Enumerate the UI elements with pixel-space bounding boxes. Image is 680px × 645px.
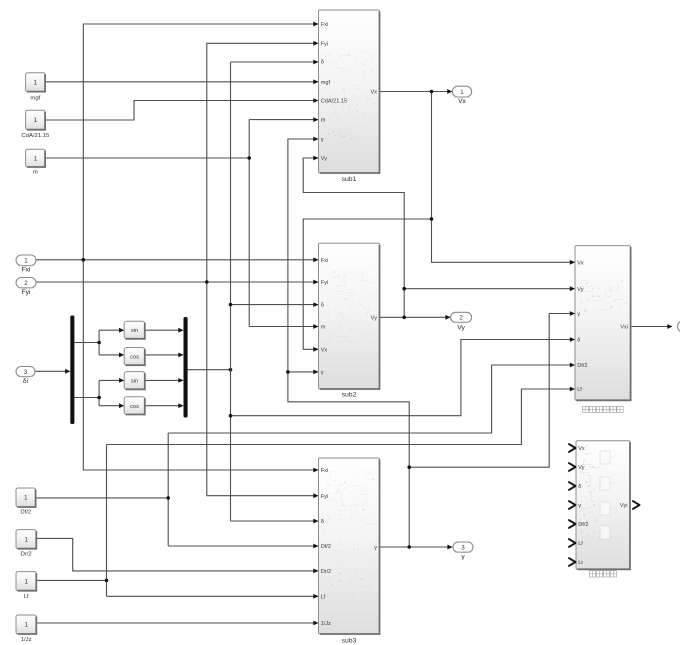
svg-text:Df/2: Df/2 — [577, 363, 587, 369]
svg-text:Dr/2: Dr/2 — [321, 569, 332, 575]
svg-text:3: 3 — [24, 369, 28, 376]
svg-text:Lr: Lr — [578, 560, 583, 566]
svg-text:1: 1 — [24, 258, 28, 265]
svg-text:1/Jz: 1/Jz — [21, 637, 32, 643]
svg-text:Vx: Vx — [370, 90, 377, 96]
svg-text:Vyi: Vyi — [620, 503, 628, 509]
svg-text:sub3: sub3 — [342, 638, 357, 645]
svg-text:Vy: Vy — [457, 325, 465, 332]
svg-text:1: 1 — [24, 495, 28, 502]
svg-text:Lf: Lf — [24, 594, 29, 600]
svg-text:Df/2: Df/2 — [321, 544, 331, 550]
svg-text:γ: γ — [577, 312, 580, 318]
svg-text:Fyi: Fyi — [321, 280, 328, 286]
svg-text:γ: γ — [374, 545, 377, 551]
svg-text:Fxi: Fxi — [321, 258, 328, 264]
svg-text:mgf: mgf — [30, 96, 40, 102]
svg-text:sub1: sub1 — [342, 176, 357, 183]
svg-text:Fyi: Fyi — [321, 494, 328, 500]
svg-text:sin: sin — [131, 328, 138, 334]
svg-text:Vx: Vx — [577, 260, 584, 266]
svg-text:Lf: Lf — [321, 594, 326, 600]
svg-text:1: 1 — [34, 117, 38, 124]
svg-text:2: 2 — [459, 315, 463, 322]
svg-text:Fxi: Fxi — [321, 468, 328, 474]
svg-text:Vx: Vx — [578, 446, 585, 452]
svg-text:Fyi: Fyi — [22, 289, 31, 296]
svg-text:Df/2: Df/2 — [578, 522, 588, 528]
svg-text:1: 1 — [34, 79, 38, 86]
svg-text:Vy: Vy — [321, 156, 328, 162]
svg-text:m: m — [321, 325, 326, 331]
svg-text:Fxi: Fxi — [321, 22, 328, 28]
svg-text:δ: δ — [321, 60, 324, 66]
svg-text:δ: δ — [321, 519, 324, 525]
svg-text:1: 1 — [24, 578, 28, 585]
svg-text:mgf: mgf — [321, 80, 331, 86]
svg-text:γ: γ — [321, 370, 324, 376]
svg-text:1: 1 — [34, 155, 38, 162]
svg-text:Vy: Vy — [578, 465, 585, 471]
svg-text:1: 1 — [460, 89, 464, 96]
svg-text:Vy: Vy — [371, 315, 378, 321]
svg-text:CdA/21.15: CdA/21.15 — [21, 133, 50, 139]
svg-text:cos: cos — [130, 404, 139, 410]
svg-text:3: 3 — [461, 544, 465, 551]
svg-text:2: 2 — [24, 280, 28, 287]
svg-text:1: 1 — [24, 536, 28, 543]
svg-text:Df/2: Df/2 — [20, 510, 31, 516]
svg-text:δ: δ — [578, 484, 581, 490]
svg-text:sub2: sub2 — [342, 392, 357, 399]
svg-text:1/Jz: 1/Jz — [321, 621, 331, 627]
svg-text:δ: δ — [577, 338, 580, 344]
svg-text:Lf: Lf — [577, 387, 582, 393]
svg-text:Vx: Vx — [458, 98, 466, 105]
svg-text:δ: δ — [321, 303, 324, 309]
svg-text:m: m — [33, 170, 38, 176]
svg-text:γ: γ — [578, 503, 581, 509]
svg-text:m: m — [321, 118, 326, 124]
svg-text:sin: sin — [131, 379, 138, 385]
svg-text:cos: cos — [130, 354, 139, 360]
svg-text:Dr/2: Dr/2 — [21, 552, 32, 558]
svg-text:Lf: Lf — [578, 541, 583, 547]
svg-text:γ: γ — [321, 137, 324, 143]
svg-text:Fyi: Fyi — [321, 41, 328, 47]
svg-text:Fxi: Fxi — [22, 267, 31, 274]
svg-text:Vxi: Vxi — [620, 325, 628, 331]
svg-text:Vx: Vx — [321, 347, 328, 353]
svg-text:δi: δi — [23, 378, 29, 385]
svg-text:1: 1 — [24, 622, 28, 629]
